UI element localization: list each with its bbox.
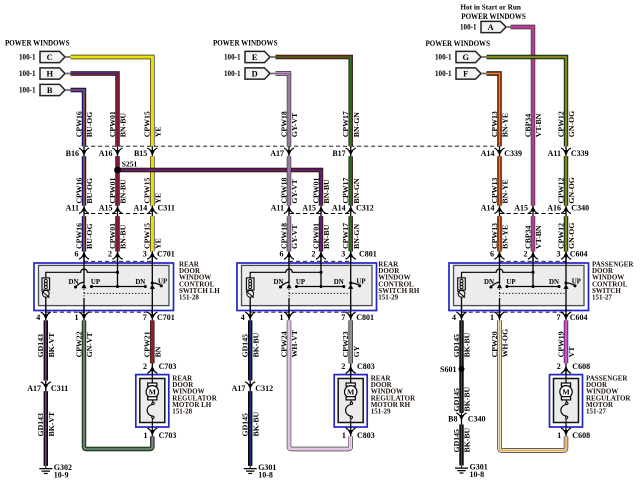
svg-text:A15: A15 [302, 204, 316, 213]
svg-text:C701: C701 [157, 250, 175, 259]
svg-text:H: H [46, 69, 53, 78]
svg-text:CPW01: CPW01 [108, 178, 117, 204]
svg-text:C311: C311 [51, 384, 68, 393]
svg-text:VT: VT [567, 346, 576, 358]
svg-text:B17: B17 [332, 149, 345, 158]
svg-text:BK-VT: BK-VT [47, 332, 56, 357]
svg-text:GY-VT: GY-VT [290, 178, 299, 203]
svg-text:A11: A11 [66, 204, 79, 213]
svg-text:YE: YE [154, 193, 163, 204]
svg-text:CPW24: CPW24 [279, 331, 288, 357]
svg-text:WH-OG: WH-OG [501, 329, 510, 358]
svg-text:151-27: 151-27 [592, 294, 612, 302]
svg-text:YE: YE [154, 238, 163, 249]
svg-text:G: G [462, 53, 469, 62]
svg-text:A16: A16 [547, 204, 561, 213]
svg-text:DN: DN [484, 279, 494, 286]
svg-text:A11: A11 [271, 204, 284, 213]
svg-text:CPW01: CPW01 [311, 178, 320, 204]
svg-text:C608: C608 [572, 431, 590, 440]
svg-text:2: 2 [557, 362, 561, 371]
svg-text:POWER WINDOWS: POWER WINDOWS [213, 39, 278, 48]
svg-text:CPW18: CPW18 [279, 223, 288, 249]
svg-text:GD145: GD145 [452, 429, 461, 452]
svg-text:10-9: 10-9 [54, 471, 69, 480]
svg-text:100-1: 100-1 [435, 69, 452, 78]
svg-text:4: 4 [241, 313, 245, 322]
svg-text:Hot in Start or Run: Hot in Start or Run [460, 3, 521, 12]
svg-text:1: 1 [144, 431, 148, 440]
svg-text:C312: C312 [356, 204, 374, 213]
svg-text:C312: C312 [255, 384, 273, 393]
svg-text:GD143: GD143 [36, 413, 45, 436]
svg-text:C340: C340 [571, 204, 589, 213]
svg-text:GD145: GD145 [241, 334, 250, 357]
svg-text:CPW22: CPW22 [74, 331, 83, 357]
svg-text:6: 6 [280, 250, 284, 259]
svg-text:POWER WINDOWS: POWER WINDOWS [5, 39, 70, 48]
svg-text:GY-VT: GY-VT [290, 224, 299, 249]
svg-text:C339: C339 [571, 149, 589, 158]
svg-text:2: 2 [524, 250, 528, 259]
svg-text:VT-BN: VT-BN [534, 225, 543, 249]
svg-text:M: M [149, 388, 157, 397]
svg-text:A17: A17 [270, 149, 284, 158]
svg-text:C604: C604 [570, 250, 588, 259]
svg-text:CPW16: CPW16 [74, 223, 83, 249]
svg-text:GN-OG: GN-OG [567, 223, 576, 249]
svg-text:BK-BU: BK-BU [463, 332, 472, 357]
svg-text:A15: A15 [99, 204, 113, 213]
svg-text:M: M [562, 388, 570, 397]
svg-text:6: 6 [75, 250, 79, 259]
svg-text:BU-OG: BU-OG [85, 223, 94, 249]
svg-text:GN-OG: GN-OG [567, 111, 576, 137]
svg-text:C801: C801 [356, 313, 374, 322]
svg-text:BN-GN: BN-GN [352, 178, 361, 203]
svg-text:CPW15: CPW15 [143, 111, 152, 137]
svg-text:1: 1 [280, 313, 284, 322]
svg-text:BN-YE: BN-YE [501, 225, 510, 249]
svg-text:BN: BN [154, 346, 163, 357]
svg-text:C703: C703 [159, 431, 177, 440]
svg-text:A14: A14 [481, 149, 495, 158]
svg-text:CPW16: CPW16 [74, 178, 83, 204]
svg-text:7: 7 [143, 313, 147, 322]
svg-text:M: M [347, 388, 355, 397]
svg-text:BU-OG: BU-OG [85, 112, 94, 138]
svg-text:GD145: GD145 [452, 388, 461, 411]
svg-text:10-8: 10-8 [258, 471, 273, 480]
svg-text:D: D [252, 69, 258, 78]
svg-text:100-1: 100-1 [224, 69, 241, 78]
svg-text:UP: UP [158, 278, 168, 285]
svg-text:POWER WINDOWS: POWER WINDOWS [461, 12, 526, 21]
svg-text:A14: A14 [481, 204, 495, 213]
svg-text:C604: C604 [570, 313, 588, 322]
svg-text:CPW12: CPW12 [556, 178, 565, 204]
svg-text:UP: UP [91, 279, 101, 286]
svg-text:BN-YE: BN-YE [501, 179, 510, 203]
svg-text:CPW16: CPW16 [74, 111, 83, 137]
svg-text:CBP34: CBP34 [523, 114, 532, 137]
svg-text:CPW15: CPW15 [143, 223, 152, 249]
svg-text:A17: A17 [232, 384, 246, 393]
svg-text:CPW19: CPW19 [556, 331, 565, 357]
svg-text:3: 3 [143, 250, 147, 259]
svg-text:F: F [463, 69, 468, 78]
svg-text:CPW12: CPW12 [556, 111, 565, 137]
svg-text:151-27: 151-27 [586, 408, 606, 416]
svg-text:BK-VT: BK-VT [47, 411, 56, 436]
svg-text:A14: A14 [332, 204, 346, 213]
svg-text:DN: DN [69, 279, 79, 286]
svg-text:2: 2 [108, 250, 112, 259]
svg-text:C801: C801 [359, 250, 377, 259]
svg-text:C701: C701 [157, 313, 175, 322]
svg-text:B15: B15 [134, 149, 147, 158]
svg-text:POWER WINDOWS: POWER WINDOWS [426, 39, 491, 48]
svg-text:BK-BU: BK-BU [251, 411, 260, 436]
svg-text:1: 1 [75, 313, 79, 322]
svg-text:CPW17: CPW17 [341, 178, 350, 204]
svg-text:A15: A15 [514, 204, 528, 213]
svg-text:GY-VT: GY-VT [290, 112, 299, 137]
svg-text:GY: GY [352, 345, 361, 357]
svg-text:6: 6 [490, 250, 494, 259]
svg-text:CPW21: CPW21 [143, 331, 152, 357]
svg-text:1: 1 [557, 431, 561, 440]
svg-text:2: 2 [143, 362, 147, 371]
svg-text:151-29: 151-29 [378, 294, 398, 302]
svg-text:BN-GN: BN-GN [352, 112, 361, 137]
svg-text:CBP34: CBP34 [523, 226, 532, 249]
svg-text:CPW18: CPW18 [279, 111, 288, 137]
svg-text:E: E [252, 53, 258, 62]
svg-text:4: 4 [452, 313, 456, 322]
svg-text:BK-BU: BK-BU [463, 427, 472, 452]
svg-text:A17: A17 [27, 384, 41, 393]
svg-text:CPW20: CPW20 [490, 331, 499, 357]
svg-text:C311: C311 [158, 204, 175, 213]
svg-text:1: 1 [490, 313, 494, 322]
svg-text:BN-BU: BN-BU [322, 179, 331, 204]
svg-text:BU-OG: BU-OG [85, 178, 94, 204]
svg-text:7: 7 [341, 313, 345, 322]
svg-text:C803: C803 [357, 431, 375, 440]
svg-text:S251: S251 [122, 159, 138, 168]
svg-text:CPW13: CPW13 [490, 111, 499, 137]
svg-text:CPW01: CPW01 [108, 223, 117, 249]
svg-text:S601: S601 [440, 365, 456, 374]
svg-text:4: 4 [36, 313, 40, 322]
svg-text:DN: DN [549, 279, 559, 286]
svg-text:100-1: 100-1 [19, 69, 36, 78]
svg-text:C608: C608 [572, 362, 590, 371]
svg-text:2: 2 [341, 362, 345, 371]
svg-text:1: 1 [342, 431, 346, 440]
svg-text:C803: C803 [357, 362, 375, 371]
svg-text:C703: C703 [159, 362, 177, 371]
svg-text:CPW13: CPW13 [490, 178, 499, 204]
svg-text:UP: UP [506, 279, 516, 286]
svg-text:UP: UP [356, 278, 366, 285]
svg-text:100-1: 100-1 [19, 86, 36, 95]
svg-text:CPW18: CPW18 [279, 178, 288, 204]
svg-text:3: 3 [341, 250, 345, 259]
svg-text:VT-BN: VT-BN [534, 113, 543, 137]
svg-text:BN-BU: BN-BU [119, 224, 128, 249]
svg-text:10-8: 10-8 [470, 470, 485, 479]
svg-text:CPW01: CPW01 [108, 111, 117, 137]
svg-text:CPW13: CPW13 [490, 223, 499, 249]
svg-text:GD143: GD143 [36, 334, 45, 357]
svg-text:BN-YE: BN-YE [501, 113, 510, 137]
svg-text:CPW12: CPW12 [556, 223, 565, 249]
svg-text:C340: C340 [468, 415, 486, 424]
svg-text:100-1: 100-1 [224, 53, 241, 62]
svg-text:C: C [47, 53, 53, 62]
svg-text:UP: UP [572, 278, 582, 285]
svg-text:DN: DN [334, 279, 344, 286]
svg-text:A16: A16 [99, 149, 113, 158]
svg-text:GD145: GD145 [452, 334, 461, 357]
svg-text:151-29: 151-29 [371, 408, 391, 416]
svg-text:7: 7 [557, 313, 561, 322]
svg-text:B8: B8 [448, 415, 457, 424]
svg-text:B16: B16 [66, 149, 79, 158]
svg-text:100-1: 100-1 [460, 23, 477, 32]
svg-text:BN-BU: BN-BU [119, 113, 128, 138]
svg-text:BN-BU: BN-BU [119, 179, 128, 204]
svg-text:CPW01: CPW01 [311, 223, 320, 249]
svg-text:100-1: 100-1 [19, 53, 36, 62]
svg-text:151-28: 151-28 [172, 408, 192, 416]
svg-text:WH-VT: WH-VT [290, 329, 299, 357]
svg-text:3: 3 [557, 250, 561, 259]
svg-text:BK-BU: BK-BU [251, 332, 260, 357]
svg-text:UP: UP [296, 279, 306, 286]
svg-text:GN-OG: GN-OG [567, 177, 576, 203]
svg-text:2: 2 [312, 250, 316, 259]
svg-text:CPW15: CPW15 [143, 178, 152, 204]
svg-text:CPW23: CPW23 [341, 331, 350, 357]
svg-text:151-28: 151-28 [179, 294, 199, 302]
svg-text:GD145: GD145 [241, 413, 250, 436]
svg-text:100-1: 100-1 [435, 53, 452, 62]
svg-text:CPW17: CPW17 [341, 223, 350, 249]
svg-text:C339: C339 [504, 149, 522, 158]
svg-text:DN: DN [135, 279, 145, 286]
svg-text:CPW17: CPW17 [341, 111, 350, 137]
svg-text:A11: A11 [548, 149, 561, 158]
svg-text:BN-GN: BN-GN [352, 224, 361, 249]
svg-text:B: B [47, 86, 53, 95]
svg-text:A14: A14 [134, 204, 148, 213]
svg-text:BN-BU: BN-BU [322, 224, 331, 249]
svg-text:DN: DN [274, 279, 284, 286]
svg-text:YE: YE [154, 126, 163, 137]
svg-text:GN-VT: GN-VT [85, 331, 94, 357]
svg-text:BK-BU: BK-BU [463, 386, 472, 411]
svg-text:A: A [488, 23, 494, 32]
